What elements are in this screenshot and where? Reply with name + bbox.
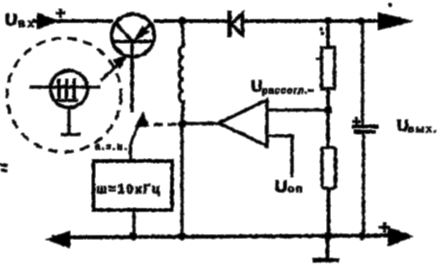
svg-text:U: U [397,118,409,135]
wire op-amp output [182,122,219,125]
junction node I (x182 bottom) [178,232,186,240]
wire R2 lower lead [327,189,330,237]
wire capacitor upper lead [361,21,363,126]
label Uоп [275,177,304,196]
dashed control link [154,123,177,125]
wire top rail D1 to output [244,20,392,23]
junction node H (box to rail) [130,232,138,240]
wire op-amp input upper [267,109,328,112]
resistor R2 [322,148,336,189]
label Uвых [397,118,438,135]
dashed circle alternative variant [7,38,121,152]
svg-text:рассогл.: рассогл. [262,86,308,96]
label Uрассогл [251,79,308,96]
input terminal Uвх [5,9,65,30]
capacitor C1 [352,118,378,132]
junction node C (capacitor top) [358,18,365,25]
svg-text:оп: оп [288,183,304,195]
scan speck left margin [0,164,7,171]
junction node E (divider bottom) [324,232,332,240]
junction node F (capacitor bottom) [358,232,365,239]
bottom rail [52,236,392,238]
wire top rail Q1 to D1 [154,20,228,23]
wire L1 node down to bottom rail [181,124,184,236]
arrow dashed-circle to Q1 [101,55,127,80]
wire op-amp input lower [267,136,292,177]
PWM generator box [94,161,173,210]
wire R1 to R2 [327,89,330,149]
output terminal arrow top [378,13,413,31]
scan tick left of R1 top [316,58,320,60]
diode D1 [230,11,243,37]
svg-text:U: U [5,11,17,30]
wire MOSFET stub [61,108,80,135]
wire divider upper lead [327,21,330,48]
wire box top lead [129,144,132,161]
svg-text:а.з.в.: а.з.в. [95,142,129,152]
inductor L1 [179,21,183,122]
wire box bottom lead [133,210,136,236]
svg-text:ш=10кГц: ш=10кГц [97,182,162,196]
wire capacitor lower lead [362,133,364,236]
resistor R1 [322,48,335,89]
op-amp U1 [219,100,267,146]
junction node G [178,120,186,128]
control arrow to base [131,112,149,144]
ground [313,236,339,260]
junction node B (divider top) [324,17,331,24]
scan tick left of R1 [308,89,313,91]
input terminal arrow bottom-left [46,231,70,248]
output terminal arrow bottom-right [379,223,413,247]
junction node A (top of L1) [178,17,185,24]
svg-text:U: U [251,79,263,96]
wire base of Q1 [131,41,134,112]
svg-text:U: U [275,177,287,196]
scan speck top right [388,3,391,6]
MOSFET VT2 [30,71,100,108]
junction node D (feedback tap) [324,106,332,114]
wire top rail left [33,20,113,23]
svg-text:вых.: вых. [408,124,438,135]
transistor Q1 [112,14,155,57]
scan speck near diode [320,27,323,30]
